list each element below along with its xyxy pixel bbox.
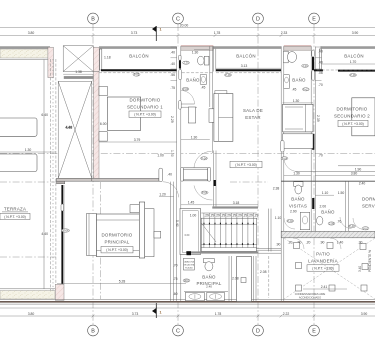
svg-text:.40: .40	[170, 62, 175, 66]
top wall of dormitorio principal	[92, 178, 159, 181]
hatched wall under shaft	[57, 178, 92, 181]
svg-text:.40: .40	[167, 172, 172, 176]
sink bano1	[200, 74, 207, 84]
grid line E	[313, 24, 315, 325]
glass wall terraza (thick black vertical)	[61, 185, 63, 284]
svg-text:2.41: 2.41	[321, 285, 328, 289]
svg-text:SED: SED	[184, 279, 189, 283]
svg-text:C: C	[176, 328, 180, 334]
dividing wall	[345, 181, 347, 231]
svg-text:1.30: 1.30	[25, 148, 32, 152]
wall on grid C	[177, 47, 182, 303]
svg-text:2.40: 2.40	[206, 285, 212, 289]
bano1 door arc	[181, 91, 195, 105]
svg-text:2.40: 2.40	[359, 181, 366, 185]
svg-text:M-04: M-04	[63, 229, 69, 233]
svg-text:0.60: 0.60	[185, 234, 190, 237]
svg-text:1.78: 1.78	[214, 31, 221, 35]
property dashed double line	[49, 59, 51, 291]
stair top line	[201, 212, 256, 214]
svg-text:5.28: 5.28	[119, 280, 126, 284]
dorm2 door arc	[284, 158, 298, 172]
svg-text:.29: .29	[232, 214, 237, 218]
svg-text:2.38: 2.38	[273, 187, 280, 191]
svg-text:P-01: P-01	[349, 224, 355, 228]
grid bubble C bottom	[173, 325, 184, 336]
svg-text:4.40: 4.40	[41, 232, 48, 236]
big X column (shaft)	[58, 81, 92, 178]
svg-text:1.30: 1.30	[192, 51, 199, 55]
balcony 3 window wall	[314, 69, 323, 71]
toilet bano servicio	[317, 216, 323, 225]
svg-text:PENDIENTE %: PENDIENTE %	[368, 250, 372, 272]
hall thick wall	[183, 168, 208, 181]
svg-text:SECADORA: SECADORA	[184, 263, 195, 266]
eave dashed line over balcony 3	[317, 69, 375, 71]
sofa	[214, 94, 233, 142]
svg-text:3.18: 3.18	[233, 201, 240, 205]
tv console sala left wall	[209, 109, 215, 123]
sink bano2	[283, 75, 289, 89]
svg-text:.06: .06	[318, 71, 323, 75]
svg-text:P-04: P-04	[282, 156, 288, 160]
desk below bano1	[188, 107, 195, 123]
sala door tag	[201, 157, 208, 160]
dim 1.20	[159, 196, 174, 198]
toilet bano1	[198, 56, 205, 65]
svg-text:3.73: 3.73	[131, 31, 138, 35]
svg-text:LAVADORA: LAVADORA	[184, 260, 195, 263]
svg-text:PLACAS: PLACAS	[185, 266, 193, 269]
svg-text:( N.P.T. +3.00): ( N.P.T. +3.00)	[312, 267, 334, 271]
section line horizontal mid right	[230, 181, 268, 183]
svg-text:TERRAZA: TERRAZA	[4, 207, 26, 212]
svg-text:.70: .70	[318, 154, 323, 158]
svg-text:.29: .29	[221, 214, 226, 218]
wc bano ppal	[204, 259, 215, 263]
balcony 3 left wall	[319, 49, 321, 70]
svg-text:1.45: 1.45	[188, 201, 195, 205]
dim 3.79	[99, 141, 177, 143]
svg-text:1.00: 1.00	[170, 150, 174, 157]
dim 1.70 balcony 3	[322, 60, 375, 64]
svg-text:3.80: 3.80	[28, 31, 35, 35]
svg-text:.90: .90	[276, 243, 281, 247]
svg-text:BAÑO: BAÑO	[292, 78, 306, 83]
hall wall jamb right	[208, 167, 211, 181]
svg-text:D: D	[256, 16, 260, 22]
window tag oval terraza	[61, 204, 64, 211]
svg-text:.45: .45	[201, 86, 206, 90]
svg-text:1.18: 1.18	[104, 56, 111, 60]
dim 1.45	[181, 204, 212, 206]
svg-text:.29: .29	[215, 214, 220, 218]
svg-text:1.00: 1.00	[157, 154, 164, 158]
svg-text:P-06: P-06	[350, 73, 356, 77]
pink wall left of dorm 1	[94, 72, 100, 182]
dorm ppal door arc	[163, 182, 179, 198]
bano2 door tag	[302, 88, 309, 91]
washer dryer box	[184, 258, 195, 270]
svg-text:.29: .29	[243, 214, 248, 218]
tread labels .29	[204, 214, 258, 218]
jamb on west wall of dorm2 zone	[281, 141, 284, 153]
grid bubble B top	[88, 13, 99, 24]
svg-text:BALCÓN: BALCÓN	[236, 54, 256, 59]
balcony 3 top wall	[321, 46, 375, 49]
eave dashed line over balcony 1	[99, 72, 213, 74]
svg-text:2.90: 2.90	[290, 210, 297, 214]
pink pier left of X column	[48, 47, 54, 77]
balcony 1 window wall	[101, 69, 177, 71]
svg-text:3.73: 3.73	[132, 312, 139, 316]
tags on bottom wall	[349, 225, 356, 228]
balcony 1 top wall	[99, 46, 177, 49]
wall between dorm ppal and closet corridor	[169, 182, 171, 302]
svg-text:( N.P.T. +3.00): ( N.P.T. +3.00)	[134, 113, 156, 117]
svg-text:P-05: P-05	[134, 73, 140, 77]
sala door arc	[194, 151, 212, 167]
svg-text:CONDENSADORES AIRE: CONDENSADORES AIRE	[295, 292, 326, 296]
svg-text:( N.P.T. +3.00): ( N.P.T. +3.00)	[235, 163, 257, 167]
balcony 2 top wall	[213, 46, 281, 49]
svg-text:VISITAS: VISITAS	[289, 203, 307, 208]
svg-text:.29: .29	[226, 214, 231, 218]
svg-text:.20: .20	[306, 241, 311, 245]
svg-text:DORMITORIO: DORMITORIO	[102, 233, 133, 238]
dim 3.18	[212, 204, 258, 206]
grid bubble C top	[173, 13, 184, 24]
wall between sala and balcony2 right / dorm2 zone	[281, 47, 284, 303]
pink pier right of X column	[93, 47, 99, 71]
svg-text:C: C	[176, 16, 180, 22]
grid bubble E top	[309, 13, 320, 24]
svg-text:5.40: 5.40	[175, 220, 179, 227]
svg-text:2.20: 2.20	[302, 64, 308, 68]
svg-text:DORMIT: DORMIT	[362, 196, 375, 201]
dividing wall	[310, 181, 312, 231]
corridor dashed line	[268, 256, 270, 298]
treads	[204, 213, 254, 248]
svg-text:1: 1	[160, 311, 162, 315]
dresser right	[145, 209, 154, 257]
desk under closet dorm2	[283, 134, 313, 149]
grid bubble D top	[253, 13, 264, 24]
svg-text:.29: .29	[204, 214, 209, 218]
bottom planter sand	[0, 289, 55, 299]
bano2 tag	[302, 64, 309, 67]
door tag oval balcony 3	[350, 73, 357, 77]
hatched wall above patio	[281, 231, 375, 238]
door arc dorm servicio	[353, 218, 365, 230]
sink bano visitas	[300, 212, 309, 229]
svg-text:P-03: P-03	[183, 87, 189, 91]
svg-text:3.40: 3.40	[358, 266, 362, 272]
planter wall top-left	[0, 48, 50, 60]
svg-text:3.80: 3.80	[28, 312, 35, 316]
svg-text:P-06: P-06	[225, 73, 231, 77]
svg-text:1.30: 1.30	[293, 172, 300, 176]
door arc bano servicio	[340, 217, 352, 229]
hall door tag 2	[201, 191, 208, 194]
svg-text:3.80: 3.80	[351, 172, 358, 176]
svg-text:1.38: 1.38	[75, 70, 82, 74]
svg-text:( N.P.T. +3.00): ( N.P.T. +3.00)	[4, 215, 26, 219]
bano1 bottom wall	[181, 106, 197, 108]
dim 1.30 terraza	[0, 151, 56, 153]
north/section marker bottom	[152, 303, 162, 318]
svg-text:DORMITORIO: DORMITORIO	[130, 97, 161, 102]
svg-text:2.22: 2.22	[283, 312, 290, 316]
svg-text:ACONDICIONADO: ACONDICIONADO	[299, 295, 321, 299]
gray bar under X-box	[64, 76, 94, 79]
svg-text:3.90: 3.90	[361, 312, 368, 316]
wall on grid E	[311, 47, 315, 182]
svg-text:P-02: P-02	[287, 219, 293, 223]
sink counter line	[184, 290, 228, 292]
svg-text:.70: .70	[173, 264, 178, 268]
tag	[328, 222, 335, 225]
svg-text:1.30: 1.30	[191, 135, 198, 139]
closet dorm2	[283, 104, 313, 132]
dims	[315, 194, 334, 196]
svg-text:.60: .60	[173, 292, 178, 296]
bano visitas door arc	[284, 218, 295, 229]
svg-text:2.33: 2.33	[281, 31, 288, 35]
svg-text:2.00: 2.00	[320, 205, 327, 209]
svg-text:1.10: 1.10	[322, 191, 329, 195]
condenser units	[294, 243, 300, 249]
small dims column at C wall	[170, 47, 177, 157]
svg-text:P-04: P-04	[202, 191, 208, 195]
dim 2.41	[303, 288, 347, 290]
bottom wall of stairs (gray band)	[186, 251, 258, 253]
top overall dimension line	[0, 24, 375, 28]
interior dim 5.28	[57, 283, 186, 285]
svg-text:BALCÓN: BALCÓN	[344, 54, 364, 59]
door tag oval balcony 2	[225, 73, 232, 77]
wall between sinks and shower	[228, 256, 230, 302]
svg-text:SERVICIO: SERVICIO	[362, 203, 375, 208]
svg-text:1.00: 1.00	[190, 214, 197, 218]
svg-text:.56: .56	[170, 73, 175, 77]
svg-text:E: E	[312, 16, 316, 22]
shower stall	[237, 257, 252, 302]
bano1 right wall	[209, 47, 211, 108]
stair outline	[201, 218, 256, 251]
top wall of service zone	[281, 180, 375, 182]
svg-text:BAÑO: BAÑO	[321, 210, 335, 215]
top dimension line with ticks	[0, 31, 375, 37]
patio diagonals	[284, 238, 375, 299]
dorm servicio top wall	[338, 165, 375, 167]
bano visitas door tag	[287, 219, 294, 222]
svg-text:LAVANDERÍA: LAVANDERÍA	[308, 259, 338, 264]
svg-text:20.00: 20.00	[180, 24, 189, 28]
dim 1.30 closet2	[283, 102, 313, 104]
hall door arc 2	[194, 186, 213, 201]
bottom dimension line with labels	[0, 312, 375, 318]
svg-text:BAÑO: BAÑO	[202, 274, 216, 279]
door tag oval balcony 1	[133, 73, 140, 77]
svg-text:.70: .70	[318, 83, 323, 87]
bano1 door tag	[182, 87, 189, 90]
sala npt tag	[230, 161, 262, 167]
svg-text:PATIO: PATIO	[316, 252, 330, 257]
svg-text:2.20: 2.20	[183, 61, 189, 65]
small dims left of bano ppal	[173, 264, 178, 297]
grid line C	[177, 24, 179, 325]
grid bubble D bottom	[253, 325, 264, 336]
svg-text:PRINCIPAL: PRINCIPAL	[104, 240, 129, 245]
svg-text:3.79: 3.79	[134, 138, 141, 142]
svg-text:1.10: 1.10	[275, 216, 282, 220]
stair top wall	[212, 206, 258, 208]
svg-text:.45: .45	[292, 87, 297, 91]
bottom outer wall	[0, 299, 375, 304]
svg-text:4.48: 4.48	[65, 126, 72, 130]
north/section marker top	[152, 26, 162, 41]
svg-text:1.50: 1.50	[338, 191, 345, 195]
closet beside stairs	[180, 209, 201, 255]
column X-box top	[63, 46, 93, 72]
bottom dimension line upper	[0, 307, 375, 309]
svg-text:.29: .29	[210, 214, 215, 218]
patio dims row	[288, 241, 363, 245]
closet dorm1	[107, 97, 140, 130]
svg-text:2.39: 2.39	[316, 115, 320, 122]
svg-text:6.00: 6.00	[100, 122, 107, 126]
svg-text:3.13: 3.13	[241, 64, 248, 68]
dims above service wall	[284, 172, 375, 176]
back wall bano1 (pink cut wall)	[181, 46, 214, 50]
svg-text:D: D	[256, 328, 260, 334]
bed dorm2	[352, 98, 375, 136]
svg-text:1.70: 1.70	[350, 60, 357, 64]
svg-text:.40: .40	[170, 50, 175, 54]
svg-text:2.08: 2.08	[260, 270, 267, 274]
svg-text:( N.P.T. +3.00): ( N.P.T. +3.00)	[342, 122, 364, 126]
pink pier bottom-left	[55, 284, 64, 300]
sink 1	[186, 292, 205, 301]
corridor wall right of stairs	[268, 187, 281, 252]
tread tick dots	[203, 223, 254, 245]
jamb boxes dorm1 left wall	[99, 86, 107, 95]
svg-text:B: B	[91, 328, 95, 334]
tag	[183, 279, 190, 282]
svg-text:3.90: 3.90	[352, 31, 359, 35]
svg-text:.29: .29	[248, 214, 253, 218]
section line horizontal	[0, 152, 375, 154]
centerline lower left	[99, 182, 101, 299]
svg-text:.75: .75	[173, 277, 178, 281]
svg-text:2.08: 2.08	[329, 222, 335, 226]
stair direction arrow	[201, 223, 216, 242]
dresser left of bed	[87, 214, 97, 256]
bed dormitorio principal	[97, 214, 140, 257]
grid line B	[92, 24, 94, 325]
planter box 1	[0, 118, 37, 136]
grid bubble E bottom	[309, 325, 320, 336]
svg-text:BALCÓN: BALCÓN	[129, 54, 149, 59]
svg-text:1.30: 1.30	[293, 99, 300, 103]
balcony 1 left wall	[100, 49, 102, 70]
grid line D	[257, 24, 259, 325]
svg-text:.40: .40	[318, 61, 323, 65]
dim 1.30 sala	[181, 138, 210, 140]
headboard	[139, 202, 144, 258]
svg-text:BAÑO: BAÑO	[291, 196, 305, 201]
svg-text:SECUNDARIO 1: SECUNDARIO 1	[127, 104, 163, 109]
svg-text:.29: .29	[237, 214, 242, 218]
window tag oval at C wall	[183, 61, 190, 65]
bedside table top	[130, 205, 139, 213]
svg-text:1.20: 1.20	[159, 192, 166, 196]
dim 1.38 under X-box	[63, 70, 93, 74]
svg-text:P-03: P-03	[303, 87, 309, 91]
grid bubble B bottom	[88, 325, 99, 336]
svg-text:P-04: P-04	[201, 156, 207, 160]
planter box 2	[0, 154, 37, 172]
terrace edge line	[43, 60, 45, 289]
svg-text:DORMITORIO: DORMITORIO	[337, 106, 368, 111]
balcony 2 window wall	[216, 69, 281, 71]
corridor wall piece	[213, 151, 215, 207]
svg-text:.29: .29	[254, 214, 259, 218]
svg-text:SALA DE: SALA DE	[243, 108, 263, 113]
balcony 2 left wall	[213, 47, 216, 72]
svg-text:SECUNDARIO 2: SECUNDARIO 2	[334, 113, 370, 118]
section line horizontal left mid	[0, 181, 58, 183]
svg-text:E: E	[312, 328, 316, 334]
patio door arcs	[293, 238, 304, 249]
svg-text:.75: .75	[170, 86, 175, 90]
hall wall jamb left	[181, 167, 184, 181]
svg-text:B: B	[91, 16, 95, 22]
svg-text:BAÑO: BAÑO	[186, 78, 200, 83]
wall right of shower	[252, 256, 254, 302]
back wall bano2 (pink cut wall)	[284, 46, 311, 50]
svg-text:.90: .90	[320, 241, 325, 245]
sink 2	[207, 292, 225, 301]
door jamb to hall	[159, 168, 163, 181]
section line horizontal lower left	[0, 256, 56, 258]
toilet bano visitas	[294, 182, 303, 187]
svg-text:.40: .40	[318, 50, 323, 54]
corridor south lines	[256, 247, 281, 249]
svg-text:ESTAR: ESTAR	[245, 115, 261, 120]
svg-text:2.29: 2.29	[170, 116, 174, 123]
svg-text:6.40: 6.40	[41, 113, 48, 117]
small dims column at E wall	[316, 47, 323, 87]
svg-text:2.08: 2.08	[232, 277, 239, 281]
svg-text:V-01: V-01	[363, 226, 369, 230]
svg-text:( N.P.T. +3.00): ( N.P.T. +3.00)	[106, 248, 128, 252]
svg-text:1: 1	[160, 28, 162, 32]
eave dashed line over balcony 2	[216, 72, 281, 74]
toilet bano2	[283, 51, 288, 63]
svg-text:1.78: 1.78	[215, 312, 222, 316]
